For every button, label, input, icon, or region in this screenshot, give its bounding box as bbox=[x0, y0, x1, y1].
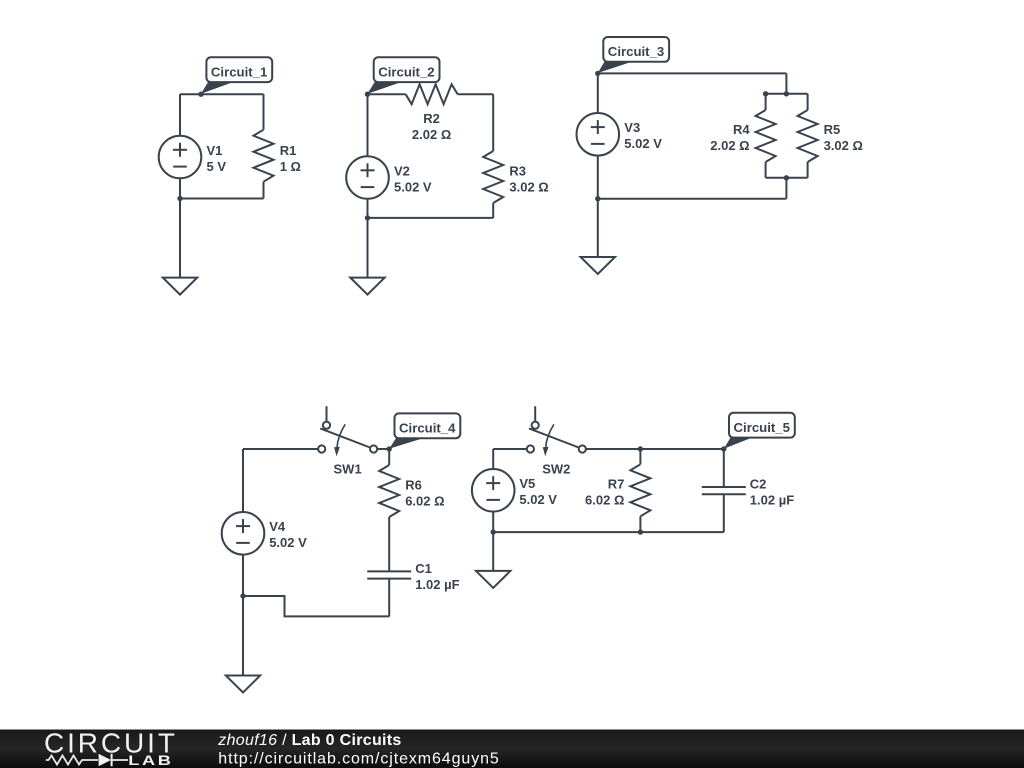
V2 label and value 5.02 V bbox=[394, 163, 432, 194]
svg-text:Circuit_4: Circuit_4 bbox=[399, 421, 456, 436]
svg-text:3.02 Ω: 3.02 Ω bbox=[509, 179, 548, 194]
svg-text:R3: R3 bbox=[509, 163, 526, 178]
svg-text:R5: R5 bbox=[824, 122, 841, 137]
wire: R3 bottom lead bbox=[492, 203, 494, 218]
R1 label and value 1 ohm bbox=[280, 143, 301, 174]
node: circuit2 ground junction bbox=[365, 215, 370, 220]
node: circuit3 ground junction bbox=[595, 196, 600, 201]
wire: circuit2 top-right segment bbox=[458, 93, 494, 95]
svg-text:R6: R6 bbox=[405, 477, 422, 492]
voltage source V4 bbox=[222, 512, 265, 555]
CircuitLab logo resistor squiggle bbox=[46, 756, 98, 765]
resistor R7 bbox=[630, 464, 650, 516]
ground (circuit1) bbox=[163, 278, 197, 295]
wire: V4 bottom lead bbox=[242, 554, 244, 675]
wire: parallel bottom bar bbox=[766, 177, 808, 179]
wire: circuit1 bottom rail bbox=[180, 198, 264, 200]
wire: R6 top lead bbox=[388, 449, 390, 465]
resistor R5 bbox=[798, 110, 818, 162]
node Circuit_3 junction dot bbox=[595, 71, 600, 76]
wire: circuit2 top-left segment bbox=[368, 93, 406, 95]
node: R7 bottom junction bbox=[638, 529, 643, 534]
switch SW1 bbox=[318, 406, 377, 456]
wire: R3 top lead bbox=[492, 94, 494, 151]
wire: V1 top lead bbox=[179, 94, 181, 136]
wire: circuit3 top rail bbox=[598, 72, 787, 74]
svg-text:V1: V1 bbox=[207, 143, 223, 158]
node: top bar feed junction bbox=[784, 91, 789, 96]
Circuit_3 pointer bbox=[598, 62, 632, 73]
wire: R5 top lead bbox=[807, 94, 809, 110]
Circuit_5 pointer bbox=[724, 438, 752, 449]
svg-text:5.02 V: 5.02 V bbox=[269, 535, 307, 550]
wire: V5 bottom lead bbox=[492, 511, 494, 532]
wire: V3 bottom lead bbox=[597, 155, 599, 198]
node: top bar left junction bbox=[763, 91, 768, 96]
svg-text:V5: V5 bbox=[519, 476, 535, 491]
svg-text:http://circuitlab.com/cjtexm64: http://circuitlab.com/cjtexm64guyn5 bbox=[218, 751, 499, 768]
wire: parallel pair drop to bottom rail bbox=[785, 178, 787, 199]
wire: left drop to V4 bbox=[242, 449, 244, 513]
resistor R3 bbox=[483, 151, 503, 203]
resistor R2 bbox=[406, 84, 458, 104]
R5 label and value 3.02 ohm bbox=[824, 122, 863, 153]
ground (circuit2) bbox=[350, 278, 384, 295]
svg-text:Circuit_5: Circuit_5 bbox=[734, 420, 790, 435]
wire: V2 bottom lead bbox=[367, 199, 369, 218]
voltage source V2 bbox=[346, 156, 389, 199]
svg-text:6.02 Ω: 6.02 Ω bbox=[405, 493, 444, 508]
svg-text:5.02 V: 5.02 V bbox=[394, 179, 432, 194]
svg-text:R4: R4 bbox=[733, 122, 750, 137]
svg-text:Circuit_2: Circuit_2 bbox=[378, 65, 434, 80]
R6 label and value 6.02 ohm bbox=[405, 477, 444, 508]
wire: circuit1 ground stem bbox=[179, 199, 181, 278]
svg-text:SW2: SW2 bbox=[542, 461, 570, 476]
svg-text:C2: C2 bbox=[750, 476, 767, 491]
svg-text:6.02 Ω: 6.02 Ω bbox=[585, 492, 624, 507]
R7 label and value 6.02 ohm bbox=[585, 476, 624, 507]
capacitor C1 bbox=[367, 571, 411, 578]
wire: circuit1 top rail bbox=[180, 93, 264, 95]
V4 label and value 5.02 V bbox=[269, 519, 307, 550]
V5 label and value 5.02 V bbox=[519, 476, 557, 507]
ground (circuit3) bbox=[581, 257, 615, 274]
ground (circuit5) bbox=[476, 571, 510, 588]
node label box Circuit_2 bbox=[374, 57, 440, 82]
wire: SW1 left lead bbox=[243, 448, 318, 450]
node label box Circuit_5 bbox=[729, 413, 795, 438]
node: R7 top junction bbox=[638, 446, 643, 451]
node Circuit_2 junction dot bbox=[365, 92, 370, 97]
svg-text:R1: R1 bbox=[280, 143, 297, 158]
V3 label and value 5.02 V bbox=[624, 120, 662, 151]
wire: V2 top lead bbox=[367, 94, 369, 156]
node Circuit_5 junction dot bbox=[721, 446, 726, 451]
Circuit_4 pointer bbox=[389, 438, 423, 449]
node: circuit4 ground junction bbox=[240, 593, 245, 598]
svg-text:5 V: 5 V bbox=[207, 159, 227, 174]
wire: R1 top lead bbox=[263, 94, 265, 130]
wire: C1 bottom lead bbox=[388, 579, 390, 617]
svg-text:V3: V3 bbox=[624, 120, 640, 135]
wire: R4 bottom lead bbox=[765, 162, 767, 178]
svg-text:V4: V4 bbox=[269, 519, 286, 534]
switch SW2 bbox=[527, 406, 586, 456]
wire: circuit3 right drop to parallel pair bbox=[785, 73, 787, 93]
wire: R7 bottom lead bbox=[639, 516, 641, 532]
svg-text:2.02 Ω: 2.02 Ω bbox=[412, 127, 451, 142]
node: bottom bar junction bbox=[784, 175, 789, 180]
node Circuit_4 junction dot bbox=[387, 446, 392, 451]
svg-text:LAB: LAB bbox=[128, 753, 173, 768]
Circuit_2 pointer bbox=[368, 82, 402, 94]
wire: C2 top lead bbox=[723, 449, 725, 487]
node: circuit5 ground junction bbox=[491, 529, 496, 534]
node Circuit_1 junction dot bbox=[198, 92, 203, 97]
resistor R6 bbox=[379, 465, 399, 517]
svg-text:R7: R7 bbox=[608, 476, 625, 491]
C2 label and value 1.02 uF bbox=[750, 476, 794, 507]
wire: V3 top lead bbox=[597, 73, 599, 113]
CircuitLab logo diode bbox=[99, 754, 128, 766]
wire: R6 bottom lead to C1 bbox=[388, 517, 390, 571]
svg-text:1 Ω: 1 Ω bbox=[280, 159, 301, 174]
svg-text:zhouf16 / Lab 0 Circuits: zhouf16 / Lab 0 Circuits bbox=[217, 732, 401, 749]
svg-text:Circuit_3: Circuit_3 bbox=[608, 44, 664, 59]
svg-text:R2: R2 bbox=[423, 111, 440, 126]
resistor R4 bbox=[756, 110, 776, 162]
svg-text:5.02 V: 5.02 V bbox=[624, 136, 662, 151]
wire: circuit3 ground stem bbox=[597, 199, 599, 257]
voltage source V3 bbox=[577, 113, 620, 156]
wire: SW2 right rail to C2 bbox=[586, 448, 724, 450]
node label box Circuit_4 bbox=[395, 413, 461, 438]
wire: circuit3 bottom rail bbox=[598, 198, 787, 200]
wire: SW1 right lead to node bbox=[377, 448, 389, 450]
V1 label and value 5 V bbox=[207, 143, 227, 174]
wire: circuit2 ground stem bbox=[367, 218, 369, 278]
capacitor C2 bbox=[702, 487, 746, 494]
wire: SW2 left lead bbox=[493, 448, 526, 450]
wire: R5 bottom lead bbox=[807, 162, 809, 178]
svg-text:Circuit_1: Circuit_1 bbox=[211, 65, 267, 80]
svg-text:1.02 µF: 1.02 µF bbox=[750, 492, 794, 507]
svg-text:1.02 µF: 1.02 µF bbox=[415, 577, 459, 592]
wire: circuit4 return path bbox=[243, 596, 389, 616]
R4 label and value 2.02 ohm bbox=[710, 122, 750, 153]
resistor R1 bbox=[254, 130, 274, 182]
svg-text:3.02 Ω: 3.02 Ω bbox=[824, 138, 863, 153]
Circuit_1 pointer bbox=[201, 82, 233, 94]
voltage source V1 bbox=[159, 136, 202, 179]
svg-text:5.02 V: 5.02 V bbox=[519, 492, 557, 507]
node: circuit1 ground junction bbox=[177, 196, 182, 201]
wire: parallel top bar bbox=[766, 93, 808, 95]
wire: V1 bottom lead bbox=[179, 178, 181, 199]
wire: R1 bottom lead bbox=[263, 182, 265, 199]
wire: circuit5 ground stem bbox=[492, 532, 494, 571]
wire: R7 top lead bbox=[639, 449, 641, 464]
voltage source V5 bbox=[472, 469, 515, 512]
wire: C2 bottom lead bbox=[723, 494, 725, 532]
wire: circuit2 bottom rail bbox=[368, 217, 494, 219]
wire: circuit5 bottom rail bbox=[493, 531, 724, 533]
svg-text:C1: C1 bbox=[415, 561, 432, 576]
svg-text:V2: V2 bbox=[394, 163, 410, 178]
node label box Circuit_3 bbox=[603, 37, 669, 62]
svg-text:2.02 Ω: 2.02 Ω bbox=[710, 138, 749, 153]
R2 label and value 2.02 ohm bbox=[412, 111, 451, 142]
wire: left drop to V5 bbox=[492, 449, 494, 470]
node label box Circuit_1 bbox=[206, 57, 272, 82]
wire: R4 top lead bbox=[765, 94, 767, 110]
svg-text:SW1: SW1 bbox=[334, 461, 362, 476]
ground (circuit4) bbox=[226, 676, 260, 693]
R3 label and value 3.02 ohm bbox=[509, 163, 548, 194]
C1 label and value 1.02 uF bbox=[415, 561, 459, 592]
